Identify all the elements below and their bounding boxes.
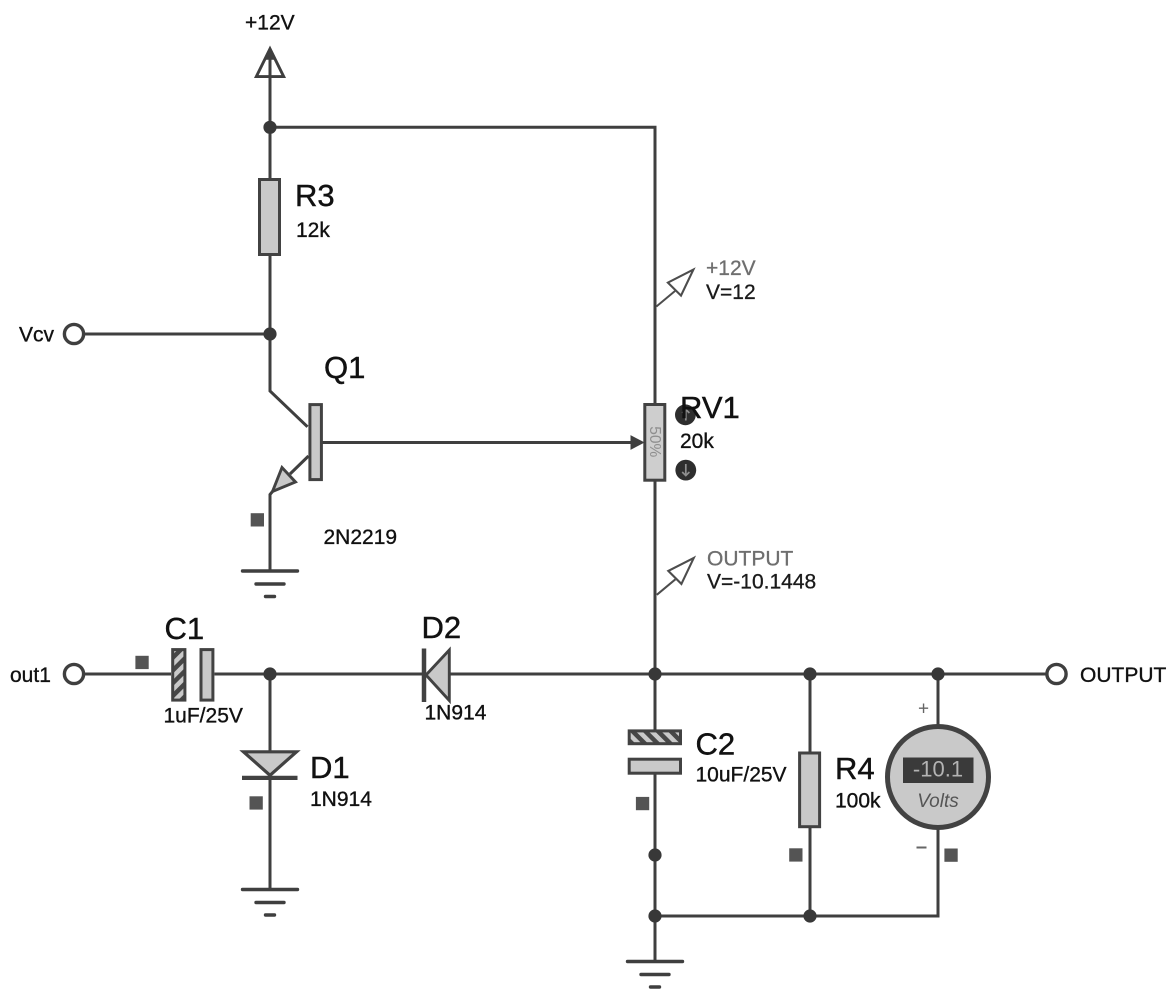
svg-text:12k: 12k xyxy=(296,219,330,242)
svg-text:Q1: Q1 xyxy=(324,350,365,385)
svg-text:+12V: +12V xyxy=(706,257,756,280)
svg-text:C2: C2 xyxy=(696,727,736,762)
svg-text:100k: 100k xyxy=(835,790,881,813)
svg-text:V=12: V=12 xyxy=(706,281,756,304)
svg-text:1N914: 1N914 xyxy=(310,788,372,811)
svg-text:-10.1: -10.1 xyxy=(913,757,963,782)
svg-text:out1: out1 xyxy=(10,664,51,687)
svg-text:OUTPUT: OUTPUT xyxy=(1080,664,1167,687)
svg-text:C1: C1 xyxy=(165,611,205,646)
svg-text:D2: D2 xyxy=(422,610,462,645)
svg-text:50%: 50% xyxy=(646,426,663,457)
svg-text:1N914: 1N914 xyxy=(425,702,487,725)
svg-text:+12V: +12V xyxy=(245,12,295,35)
svg-text:2N2219: 2N2219 xyxy=(324,526,398,549)
svg-text:20k: 20k xyxy=(680,430,714,453)
svg-text:10uF/25V: 10uF/25V xyxy=(696,764,787,787)
svg-text:+: + xyxy=(918,699,929,720)
svg-text:R4: R4 xyxy=(835,751,875,786)
svg-text:R3: R3 xyxy=(295,178,335,213)
svg-text:Vcv: Vcv xyxy=(19,324,55,347)
svg-text:D1: D1 xyxy=(310,750,350,785)
svg-text:RV1: RV1 xyxy=(680,390,740,425)
svg-text:OUTPUT: OUTPUT xyxy=(707,548,794,571)
svg-text:1uF/25V: 1uF/25V xyxy=(164,705,243,728)
svg-text:V=-10.1448: V=-10.1448 xyxy=(707,571,816,594)
svg-text:Volts: Volts xyxy=(917,791,959,812)
